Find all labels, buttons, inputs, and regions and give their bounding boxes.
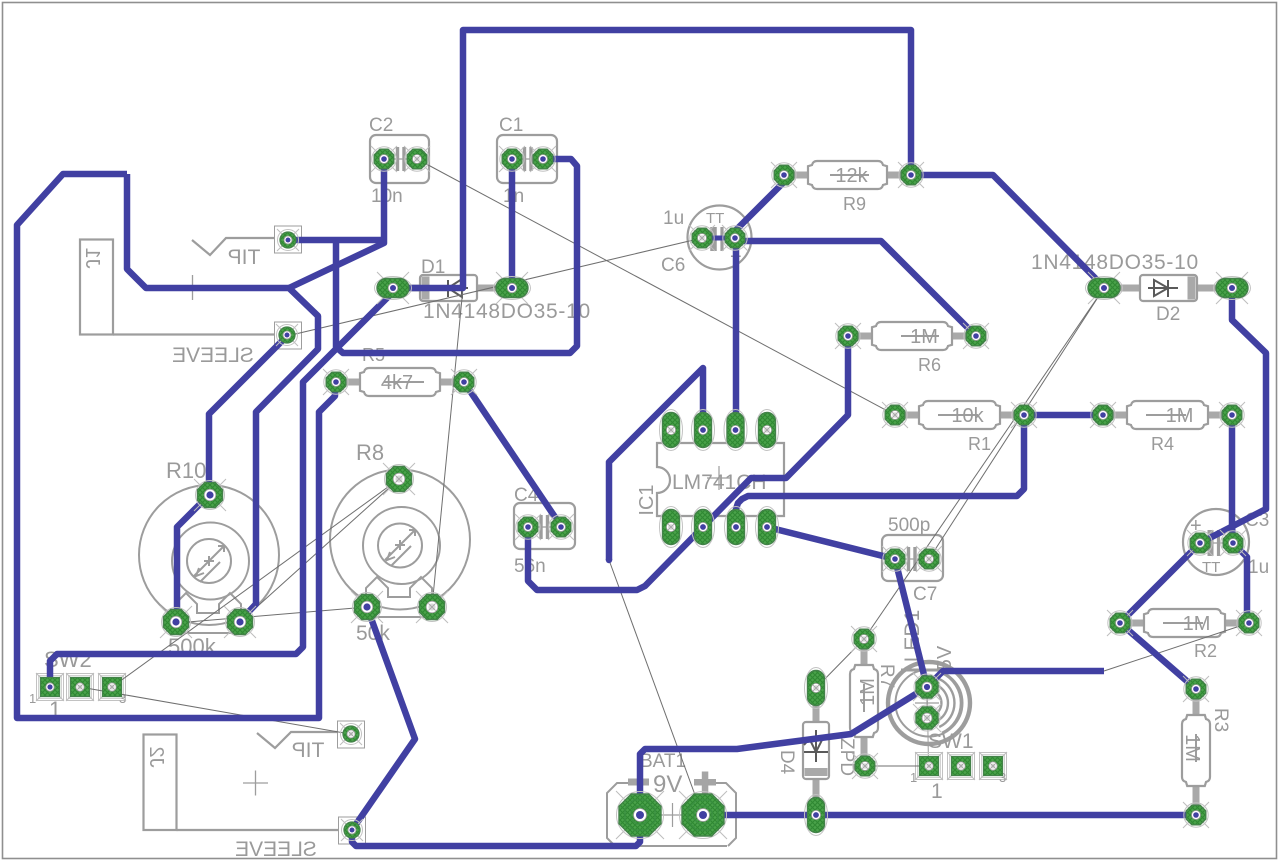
- wire C1.1 down to D1.2: [509, 159, 516, 288]
- wire D2.2 down right side through C3.1 to R2.1: [1120, 288, 1266, 623]
- R2 strike line: [1163, 622, 1203, 624]
- wire IC1 pin8 diagonal to C7.1: [767, 527, 895, 559]
- svg-text:1: 1: [910, 770, 917, 785]
- IC1 pin 7 pad: [725, 507, 748, 548]
- resistor R1 pad 1: [882, 402, 908, 428]
- airwire SW2.2 to TIP2: [80, 687, 350, 734]
- potentiometer R10 pad E: [224, 606, 256, 638]
- capacitor C2 pad 2: [404, 146, 430, 172]
- svg-text:4k7: 4k7: [381, 372, 413, 394]
- resistor R1 pad 2: [1011, 402, 1037, 428]
- airwire D1 trace to R8.E: [432, 288, 463, 607]
- J2 origin cross: [243, 771, 268, 796]
- diode D2 pad 2: [1216, 272, 1248, 304]
- switch SW2 pad 1: [36, 673, 64, 701]
- IC1 pin 3 pad: [724, 410, 747, 451]
- wire R5.2 diagonal to C4.2: [464, 382, 561, 526]
- resistor R6 pad 1: [835, 323, 861, 349]
- svg-text:R8: R8: [356, 440, 384, 465]
- J1 TIP pad: [277, 229, 299, 251]
- switch SW2 pad 2: [66, 673, 94, 701]
- BAT1 origin cross: [661, 803, 684, 827]
- svg-text:SW1: SW1: [928, 730, 974, 753]
- svg-text:1M: 1M: [1183, 613, 1211, 635]
- wire GND long left: J1 top arm down left side and bottom to R5.1: [17, 174, 335, 718]
- R4 strike line: [1146, 414, 1186, 416]
- BAT1 minus mark: [628, 779, 649, 786]
- battery BAT1 pad 2: [679, 791, 727, 839]
- svg-text:12k: 12k: [835, 165, 868, 187]
- svg-text:9V: 9V: [653, 771, 682, 798]
- svg-text:1M: 1M: [857, 678, 879, 706]
- LED LED1 body: [888, 662, 970, 744]
- wire R8.A zigzag to SLEEVE2: [352, 607, 415, 830]
- potentiometer R10 wiper pad: [194, 479, 226, 511]
- airwire D4.1 to R7.1: [816, 639, 864, 688]
- capacitor C4 pad 2: [548, 514, 574, 540]
- battery BAT1 outline: [607, 783, 736, 846]
- capacitor C7 pad 2: [916, 546, 942, 572]
- switch SW1 symbol line: [927, 675, 929, 766]
- svg-text:1N4148DO35-10: 1N4148DO35-10: [423, 300, 591, 323]
- wire R1.2 to R4.1: [1024, 412, 1103, 419]
- svg-text:1: 1: [931, 780, 943, 803]
- svg-text:IC1: IC1: [636, 484, 658, 515]
- svg-text:R3: R3: [1210, 708, 1231, 732]
- svg-text:1u: 1u: [663, 208, 684, 229]
- airwire R10.E to R8.S: [240, 479, 399, 622]
- wire TIP to C2.1 horizontal: [288, 237, 384, 244]
- capacitor C1 pad 1: [499, 146, 525, 172]
- resistor R4 body: [1103, 412, 1131, 419]
- potentiometer R10 pad A: [160, 606, 192, 638]
- R7 strike line: [863, 684, 865, 712]
- svg-text:TT: TT: [1202, 559, 1220, 576]
- resistor R7 pad 1: [851, 626, 877, 652]
- resistor R9 pad 2: [898, 162, 924, 188]
- svg-text:R2: R2: [1194, 641, 1217, 661]
- wire LED pad east horizontal trace end: [927, 671, 1104, 687]
- wire top net: D1.1 jog up across top to R9.2: [393, 30, 911, 288]
- airwire trace-end to R2.2: [1104, 623, 1249, 671]
- IC1 pin 5 pad: [660, 507, 683, 548]
- airwire C7.2 to D2.1: [929, 288, 1104, 559]
- R9 strike line: [830, 174, 869, 176]
- svg-text:500p: 500p: [888, 515, 930, 536]
- svg-text:R1: R1: [968, 434, 991, 454]
- diode D1 body: [393, 285, 424, 292]
- svg-text:J1: J1: [81, 247, 103, 268]
- resistor R9 body: [784, 172, 812, 179]
- svg-text:SLEEVE: SLEEVE: [235, 838, 317, 861]
- svg-text:1N4148DO35-10: 1N4148DO35-10: [1031, 251, 1199, 274]
- switch SW2 pad boxes: [37, 674, 126, 701]
- wire R2.1 diagonal to R3.1: [1120, 623, 1196, 689]
- svg-text:1: 1: [29, 691, 36, 706]
- svg-text:C6: C6: [661, 255, 685, 276]
- potentiometer R8 pad E: [416, 591, 448, 623]
- R5 strike line: [384, 381, 424, 383]
- wire GND branch: to R10 wiper via zigzag: [127, 174, 318, 621]
- IC1 pin 1 pad: [660, 410, 683, 451]
- diode D1 pad 2: [496, 272, 528, 304]
- resistor R2 body: [1120, 620, 1148, 627]
- R6 strike line: [901, 335, 939, 337]
- capacitor C2 outline: [370, 135, 429, 183]
- capacitor C3 pad 1: [1187, 530, 1213, 556]
- svg-text:TIP: TIP: [228, 246, 261, 269]
- airwire D2.1 to R7.1: [864, 288, 1104, 639]
- svg-text:5V: 5V: [934, 645, 956, 670]
- svg-text:C7: C7: [913, 584, 937, 605]
- svg-text:R9: R9: [843, 194, 866, 214]
- resistor R6 body: [848, 333, 876, 340]
- airwire SLEEVE to C6.1: [287, 238, 702, 336]
- potentiometer R8 body: [330, 470, 470, 618]
- switch SW1 pad 2: [947, 752, 975, 780]
- op-amp IC1 body: [657, 443, 784, 516]
- svg-text:J2: J2: [145, 746, 167, 767]
- LED1 anode pad: [913, 673, 941, 701]
- resistor R2 pad 2: [1236, 610, 1262, 636]
- wire BAT1.2 east bottom to R3.2: [703, 812, 1196, 819]
- capacitor C7 outline: [882, 535, 943, 581]
- potentiometer R10 body: [139, 485, 279, 633]
- SW1 origin cross: [915, 691, 939, 715]
- resistor R1 body: [895, 412, 923, 419]
- capacitor C6 pad 1: [689, 225, 715, 251]
- wire branch junction to C1.2 long route: [336, 159, 577, 353]
- switch SW1 pad 1: [915, 752, 943, 780]
- svg-text:D2: D2: [1156, 304, 1180, 325]
- potentiometer R8 wiper pad: [383, 463, 415, 495]
- switch SW1 pad boxes: [916, 753, 1007, 780]
- IC1 pin 8 pad: [756, 507, 779, 548]
- diode D1 pad 1: [377, 272, 409, 304]
- LED1 cathode pad: [913, 704, 941, 732]
- diode D2 body: [1104, 285, 1144, 292]
- svg-text:BAT1: BAT1: [640, 751, 686, 772]
- resistor R9 pad 1: [771, 162, 797, 188]
- svg-text:D4: D4: [776, 750, 797, 775]
- svg-text:TIP: TIP: [292, 739, 325, 762]
- wire R6.1 down diagonal through IC1 pin6 to C4.1: [528, 336, 848, 590]
- resistor R5 body: [336, 379, 364, 386]
- resistor R4 pad 1: [1090, 402, 1116, 428]
- wire LED pad down-left to BAT1.1 and SLEEVE2: [352, 687, 927, 846]
- capacitor C3 pad 2: [1220, 530, 1246, 556]
- wire SLEEVE to R10 top and R10.A: [177, 335, 288, 622]
- switch SW2 pad 3: [98, 673, 126, 701]
- wire C6.1 to C6.2 short link: [702, 236, 736, 241]
- resistor R5 pad 1: [323, 369, 349, 395]
- R3 strike line: [1195, 734, 1197, 762]
- airwire R8.S to SW2.3: [112, 479, 399, 687]
- svg-text:1u: 1u: [1248, 557, 1269, 578]
- resistor R5 pad 2: [451, 369, 477, 395]
- wire D1.1 down long route to SW2.1: [50, 289, 393, 687]
- airwire trace-stub to BAT1.2: [609, 560, 702, 814]
- wire R9.1 diagonal to C6.2 and down to IC1 pin3: [736, 175, 784, 430]
- capacitor C6 pad 2: [722, 225, 748, 251]
- svg-text:C2: C2: [369, 115, 393, 136]
- diode D4 body: [813, 688, 820, 726]
- IC1 pin 2 pad: [692, 410, 715, 451]
- wire R9.2 east diagonal to D2.1: [911, 175, 1104, 287]
- battery BAT1 pad 1: [616, 791, 664, 839]
- stub rounded end: [606, 557, 613, 564]
- capacitor C6 outline: [688, 206, 752, 270]
- capacitor C4 outline: [514, 503, 575, 549]
- svg-text:1M: 1M: [910, 326, 938, 348]
- wire C7.1 steep diagonal to LED pad: [895, 559, 927, 687]
- wire R4.2 down through C3.2 to R2.2: [1232, 415, 1247, 623]
- potentiometer R8 pad A: [351, 591, 383, 623]
- airwire R10.A to R8.A: [176, 607, 367, 623]
- airwire C2.2 to R1.1: [417, 159, 895, 415]
- svg-text:10k: 10k: [951, 405, 984, 427]
- J2 SLEEVE pad: [341, 819, 363, 841]
- svg-text:R4: R4: [1151, 434, 1174, 454]
- capacitor C1 pad 2: [530, 146, 556, 172]
- svg-text:D1: D1: [421, 257, 445, 278]
- svg-text:1M: 1M: [1166, 405, 1194, 427]
- J1 SLEEVE pad: [276, 324, 298, 346]
- wire stub net: dead-end up to IC1 pin2: [609, 368, 703, 560]
- BAT1 plus mark: [694, 779, 716, 786]
- resistor R2 pad 1: [1107, 610, 1133, 636]
- resistor R3 body: [1193, 689, 1200, 719]
- switch SW1 pad 3: [979, 752, 1007, 780]
- svg-text:TT: TT: [706, 210, 724, 227]
- resistor R3 pad 2: [1183, 802, 1209, 828]
- wire C6.2 east diagonal to R6.2: [736, 241, 976, 336]
- resistor R7 pad 2: [852, 753, 878, 779]
- resistor R4 pad 2: [1219, 402, 1245, 428]
- airwire R7.2 to SW1.1: [865, 765, 929, 767]
- connector J1 body: [80, 226, 302, 349]
- svg-text:C1: C1: [499, 115, 523, 136]
- wire IC1 pin7 arc east to R1.2: [736, 415, 1024, 527]
- wire GND branch: C2.1 diagonal: [289, 159, 384, 288]
- IC1 pin 6 pad: [692, 507, 715, 548]
- J2 TIP pad: [340, 723, 362, 745]
- diode D4 pad 1: [805, 668, 828, 709]
- resistor R7 body: [861, 639, 868, 669]
- capacitor C3 outline: [1183, 509, 1249, 575]
- resistor R3 pad 1: [1183, 676, 1209, 702]
- diode D2 pad 1: [1088, 272, 1120, 304]
- IC1 origin cross: [707, 466, 731, 490]
- capacitor C1 outline: [497, 135, 557, 183]
- capacitor C2 pad 1: [371, 146, 397, 172]
- IC1 pin 4 pad: [756, 410, 779, 451]
- svg-text:R6: R6: [918, 355, 941, 375]
- svg-text:R10: R10: [166, 458, 206, 483]
- diode D4 pad 2: [805, 795, 828, 836]
- svg-text:1M: 1M: [1181, 734, 1203, 762]
- connector J2 body: [144, 721, 366, 844]
- svg-text:SLEEVE: SLEEVE: [172, 344, 254, 367]
- J1 origin cross: [180, 275, 205, 300]
- resistor R6 pad 2: [963, 323, 989, 349]
- capacitor C4 pad 1: [515, 514, 541, 540]
- R1 strike line: [938, 414, 978, 416]
- capacitor C7 pad 1: [882, 546, 908, 572]
